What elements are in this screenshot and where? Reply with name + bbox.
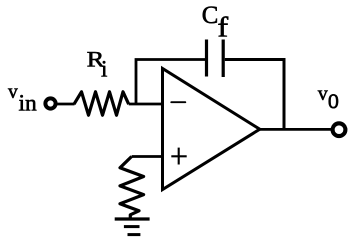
wire: non-inverting input wire [132,155,163,158]
svg-text:f: f [217,11,229,43]
wire: feedback tap up from node A to capacitor [136,60,205,105]
label R_i [87,47,108,81]
svg-text:C: C [202,2,219,29]
op-amp minus sign [171,101,185,103]
svg-text:v: v [8,82,18,103]
label v_o [318,81,339,115]
svg-text:o: o [328,81,339,115]
wire: input wire from terminal to resistor Ri [57,103,75,106]
wire: feedback from capacitor right plate down to output node [225,60,284,130]
svg-text:i: i [101,56,107,81]
op-amp plus sign [171,148,186,165]
capacitor Cf right plate [222,40,225,78]
op-amp U1 triangle [163,69,260,190]
svg-text:in: in [19,91,38,117]
wire: from resistor Ri to op-amp inverting input (node A) [129,103,163,106]
resistor Ri (zigzag) [74,92,129,115]
ground [115,219,150,235]
svg-text:v: v [318,83,328,105]
wire: output wire from op-amp apex to terminal [260,128,332,131]
terminal: v_o output terminal circle [333,123,346,136]
resistor R2 (vertical zigzag to ground) [120,157,144,220]
capacitor Cf left plate [205,40,208,77]
terminal: v_in input terminal circle [45,98,55,108]
label C_f [202,2,229,43]
label v_in [8,82,37,117]
